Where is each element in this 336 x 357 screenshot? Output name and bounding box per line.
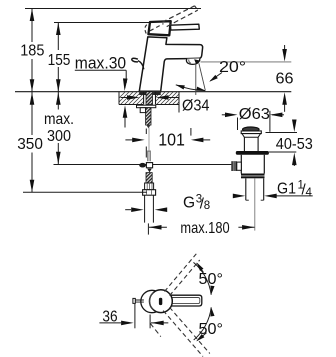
wire 350 bottom reference line [23,191,147,193]
node max300 dimension line [57,92,59,165]
node drain bottom rims [241,174,265,176]
node O34 dimension arrows [121,97,127,99]
svg-text:50°: 50° [199,321,224,338]
node faucet body outline [139,37,202,91]
node base gasket [139,91,161,95]
svg-text:G1: G1 [277,181,296,198]
node lever bar [171,24,200,30]
node ribbed collar [145,183,154,190]
wire dashed lever position upper 50 [165,254,200,296]
wire 20 deg arc [176,85,206,91]
wire drain centerline [254,178,256,230]
svg-text:185: 185 [20,43,44,60]
node threaded shank through deck [144,92,156,105]
node aerator at spout tip [186,58,199,64]
node O63 dimension [222,111,284,132]
wire 155 reference line [54,22,150,24]
node top-view lever slot [159,298,162,305]
node pop-up pull rod knob [132,58,138,62]
node drain plug dome [243,127,260,132]
svg-text:G: G [183,195,195,212]
wire thin supply hose [148,128,150,153]
svg-text:20°: 20° [219,59,246,76]
svg-text:40-53: 40-53 [276,136,313,153]
node deck cross-section with hatching [112,90,191,113]
node drain flange band (O63) [236,151,269,155]
svg-text:8: 8 [204,200,210,212]
node max180 dimension [148,223,254,234]
wire drain tailpipe [246,178,264,200]
node 36 dimension [99,304,168,329]
svg-text:max.180: max.180 [180,220,229,237]
wire 50 deg leaders [197,264,203,273]
svg-text:50°: 50° [199,271,224,288]
node G1 1/4 dimension [237,195,313,197]
node 155 dimension line [57,23,59,92]
svg-text:4: 4 [306,187,313,199]
svg-text:Ø34: Ø34 [182,97,210,114]
node 101 dimension [125,128,210,158]
node top-view lever bar [168,295,202,306]
node threaded mounting stud [146,108,151,125]
node rod side port knob [231,161,237,171]
node max30 leader [75,70,126,88]
node top-view pull rod [133,298,135,303]
node drain body [241,155,264,174]
node lever head [148,21,170,35]
node washer under deck [137,105,156,108]
wire deck/counter top line [15,91,291,93]
wire supply pipe tails [145,195,154,222]
svg-text:36: 36 [102,309,117,326]
wire 20 deg leader [210,73,222,81]
node top-view cartridge circle [150,290,173,313]
svg-text:101: 101 [158,130,185,150]
node pop-up rod to drain (long horizontal) [54,164,232,166]
svg-text:350: 350 [17,136,43,153]
node 40-53 dimension [266,120,298,166]
wire 66 top reference line (aerator height) [201,61,292,63]
node lower threaded section [146,173,152,183]
wire angled stream line [199,63,205,90]
svg-text:max.: max. [44,111,74,128]
node top-view body circle [141,290,163,312]
svg-text:Ø63: Ø63 [239,106,270,123]
wire 50 deg arcs [194,262,212,294]
node drain plug flange [241,131,261,134]
node 66 dimension arrows [284,45,286,50]
node rod-hose clamp fitting [139,163,146,168]
node max30 lower arrow (deck underside) [124,117,126,128]
wire top reference line (185 dim) [25,8,201,10]
svg-text:155: 155 [48,52,71,69]
node supply connection nut G3/8 [143,190,156,196]
wire dashed raised lever outline [145,6,198,34]
node G3/8 dimension [125,209,167,211]
svg-text:66: 66 [276,70,294,87]
wire vertical stream line [195,64,197,95]
node 185 dimension line [31,9,33,92]
node hose elbow block [140,108,145,113]
node drain upper cylinder [244,137,258,151]
svg-text:300: 300 [47,128,71,145]
node drain neck [242,134,261,138]
svg-text:max.30: max.30 [75,54,126,72]
wire dashed lever position lower 50 [150,307,210,356]
node 350 dimension line [31,92,33,193]
